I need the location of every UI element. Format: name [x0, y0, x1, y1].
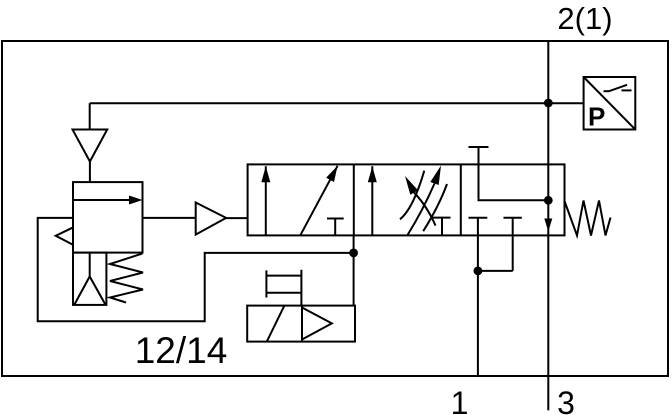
amplifier triangle: [196, 203, 226, 235]
valve cell1 diagonal arrow: [300, 166, 337, 236]
valve cell2 closed port T: [433, 218, 451, 236]
valve cell3 internal path: [479, 164, 549, 200]
valve cell3 top closed port: [469, 147, 489, 164]
node 3 label: [557, 385, 575, 415]
wire: regulator pilot drop: [89, 103, 91, 129]
junction: pilot / feedback: [349, 249, 358, 258]
valve cell1 flow arrow up: [265, 166, 267, 235]
node 1 label: [451, 385, 469, 415]
valve return spring: [565, 201, 611, 236]
regulator spring: [110, 254, 143, 303]
valve cell2 arrow NE: [408, 166, 441, 235]
wire: triangle to regulator: [89, 162, 91, 183]
wire: pilot supply horizontal: [90, 102, 584, 104]
node 2(1) label: [557, 1, 612, 36]
pressure regulator body: [73, 182, 143, 253]
valve cell2 flow arrow up: [371, 166, 373, 235]
junction: port 1 elbow: [474, 267, 483, 276]
svg-text:2(1): 2(1): [557, 1, 612, 36]
regulator exhaust chamber: [73, 253, 106, 305]
valve cell3 port T right: [504, 218, 522, 271]
wire: regulator output: [143, 217, 196, 219]
wire: working line 2 vertical: [547, 41, 549, 410]
pilot inlet triangle: [73, 130, 108, 162]
wire: pilot drop to solenoid: [353, 235, 355, 305]
junction: pilot supply / line 2: [544, 99, 553, 108]
regulator relief arrow (open): [56, 228, 73, 245]
wire: amplifier to valve: [226, 217, 248, 219]
solenoid pilot ladder: [266, 270, 301, 306]
solenoid S1 body: [247, 306, 355, 342]
svg-text:12/14: 12/14: [135, 330, 228, 371]
svg-text:3: 3: [557, 385, 575, 415]
valve cell2 throttle arc left: [400, 171, 424, 220]
valve cell2 arrow NW: [405, 176, 436, 226]
junction: cell3 path / line 2: [544, 196, 553, 205]
svg-text:1: 1: [451, 385, 469, 415]
svg-text:P: P: [588, 102, 605, 132]
valve V1 body: [248, 164, 565, 235]
valve cell2 throttle arc right: [423, 184, 447, 231]
valve cell1 closed port T: [327, 219, 344, 236]
valve cell3 port 1 T and line: [469, 218, 488, 376]
valve cell3 down arrowhead: [544, 219, 552, 232]
node 12/14 label: [135, 330, 228, 371]
pressure switch U1 (P): [584, 77, 636, 132]
wire: port elbow: [478, 270, 513, 272]
wire: feedback loop 12/14: [38, 218, 354, 321]
